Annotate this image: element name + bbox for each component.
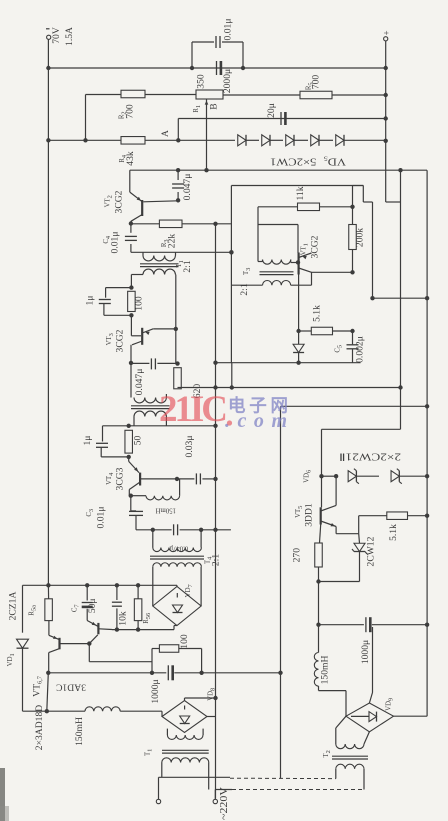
transistor VT6 collector [49, 649, 60, 653]
wire 100R left corner [151, 649, 153, 673]
wire bus-280 vertical [280, 406, 282, 778]
bridge VD8 internal diode [180, 716, 190, 724]
wire T4 sec left leg [152, 567, 154, 588]
wire T1m pri right leg [208, 763, 210, 790]
wire bus-215 long vertical [215, 224, 217, 799]
wire 150mH left stub [131, 495, 146, 497]
svg-text:~220V: ~220V [219, 787, 230, 820]
wire 581 crossbar [319, 581, 360, 583]
node dot s3-215tee [213, 424, 217, 428]
svg-text:1000μ: 1000μ [360, 640, 371, 664]
wire stage3 top wire [103, 425, 216, 427]
svg-text:2CW12: 2CW12 [366, 536, 377, 566]
wire 5k1aux riser [358, 516, 360, 534]
node dot 100-1000u-r [199, 671, 203, 675]
wire emitter2 bus [153, 328, 176, 330]
wire 711 bus a [23, 710, 86, 712]
node dot 427-476 [425, 474, 429, 478]
wire 321 drop to VD6 [321, 429, 323, 476]
node dot 047-top [176, 168, 180, 172]
wire 200k top lead [352, 207, 354, 225]
wire box 200k drop [352, 186, 354, 207]
node dot botedge-215 [213, 361, 217, 365]
node dot 280-672 [278, 671, 282, 675]
transformer T1 bottom winding [143, 269, 175, 274]
wire 0.047 hang [177, 170, 179, 180]
node dot c7-585 [85, 583, 89, 587]
terminal mains right [213, 799, 217, 803]
wire 711 bus b [120, 710, 162, 712]
wire T1m sec right riser [202, 729, 204, 735]
node dot 5k1-cap [350, 329, 354, 333]
transistor VT2 collector [131, 215, 142, 222]
node dot base-047 [176, 198, 180, 202]
wire T2-sec-right [165, 417, 167, 426]
svg-text:0.01μ: 0.01μ [110, 232, 121, 254]
bridge VD8 diamond [162, 701, 207, 733]
svg-text:+: + [382, 30, 392, 35]
wire T2-sec-left [133, 417, 135, 426]
wire bus-400 vertical [400, 170, 402, 429]
terminal minus output [47, 35, 51, 39]
capacitor C4 0.01u [125, 235, 137, 237]
wire jog 385-400 [386, 201, 401, 203]
wire 585 bus [23, 584, 178, 586]
wire base1 drop [88, 644, 90, 662]
wire cap5 top lead [352, 331, 354, 344]
wire bus-231 lower [231, 363, 233, 388]
node dot 10k-585 [115, 583, 119, 587]
svg-text:2CZ1A: 2CZ1A [8, 592, 19, 621]
transformer T1m core [162, 749, 209, 751]
capacitor 0.01u bypass [215, 36, 217, 48]
wire 2cw12 top lead [358, 534, 361, 544]
svg-text:0.03μ: 0.03μ [184, 436, 195, 458]
node dot B-tee [204, 168, 208, 172]
wire stage1 supply py170 [130, 169, 427, 171]
svg-text:100: 100 [134, 296, 145, 311]
wire R5-plusrail [332, 94, 386, 96]
svg-text:5.1k: 5.1k [388, 524, 399, 541]
svg-text:3CG2: 3CG2 [115, 329, 126, 352]
wire z4-z5 [319, 139, 333, 141]
transformer T3 top winding [263, 260, 291, 265]
wire C4 hang [130, 224, 132, 233]
node dot T1r-emitter2 [174, 327, 178, 331]
svg-text:0.01μ: 0.01μ [223, 19, 234, 41]
node dot T1wire-231 [229, 250, 233, 254]
wire 10k top lead [116, 585, 118, 600]
wire T4 sec right leg [200, 567, 202, 606]
capacitor 10k-branch [112, 601, 122, 603]
svg-text:43k: 43k [125, 151, 136, 166]
svg-text:100: 100 [179, 634, 190, 649]
node dot r56-585 [136, 583, 140, 587]
wire T3-bot-right [291, 284, 312, 286]
node dot 427-624 [425, 623, 429, 627]
node dot T4-right-tap [199, 528, 203, 532]
transformer T4 core [150, 555, 204, 557]
wire aux coil riser [318, 625, 320, 653]
wire 5k1aux right [408, 515, 428, 517]
svg-text:1.5A: 1.5A [64, 27, 75, 46]
node dot 298-left [370, 296, 374, 300]
svg-text:700: 700 [125, 104, 136, 119]
transistor VT4 emitter [128, 457, 130, 462]
transformer T1 core [140, 263, 179, 265]
svg-text:11k: 11k [295, 186, 306, 200]
node dot plus-118 [384, 116, 388, 120]
wire mains bottom dashed [232, 789, 364, 791]
node dot loop3 top [127, 424, 131, 428]
capacitor 0.047u stage2 [150, 358, 152, 369]
resistor R 100 stage2 [128, 291, 135, 311]
node dot A-line-178 [176, 138, 180, 142]
wire 0.01u loop top-a [192, 41, 214, 43]
svg-text:150mH: 150mH [74, 717, 85, 746]
node dot 298-right [425, 296, 429, 300]
wire VT7 base lead [99, 628, 112, 631]
wire loop2 bottom [104, 314, 131, 316]
wire VD1 branch bottom [22, 648, 24, 711]
node dot 150mH-tap [175, 477, 179, 481]
wire drop to 711 [47, 673, 49, 711]
node dot 047c-215 [213, 528, 217, 532]
transformer T4 top winding [153, 548, 202, 552]
wire 047c right [180, 529, 231, 531]
transformer T2 bottom winding [134, 411, 166, 416]
diode VD5-2 [262, 135, 270, 146]
wire VT4 base bus [141, 478, 195, 480]
watermark red dot [227, 420, 232, 425]
capacitor C2 2000u [216, 61, 218, 75]
resistor R 11k [298, 203, 320, 211]
wire 620 long bus [178, 387, 401, 389]
node dot collector-R3 [129, 221, 133, 225]
node dot 100-1000u-l [150, 671, 154, 675]
resistor R 100 power [159, 645, 178, 653]
node dot base-5k1 [296, 329, 300, 333]
svg-text:10k: 10k [117, 611, 128, 626]
node dot loop2 top [129, 285, 133, 289]
wire T4 right leg [200, 530, 202, 548]
node dot coll5-tap [334, 474, 338, 478]
svg-text:270: 270 [292, 548, 303, 563]
wire diode bottom lead [298, 353, 300, 363]
wire VD6 wire a [322, 475, 337, 477]
wire T2 left leg [130, 363, 132, 398]
transistor VT5 collector [321, 505, 336, 511]
svg-text:3CG3: 3CG3 [115, 467, 126, 490]
wire T1m pri left leg [161, 763, 163, 778]
terminal plus output [384, 37, 388, 41]
transistor VT2 bar [141, 200, 143, 216]
node dot plus-68 [384, 66, 388, 70]
wire T2 topwind right [165, 394, 167, 398]
wire 1000u bus b [174, 672, 280, 674]
wire z2-z3 [270, 139, 283, 141]
svg-text:200k: 200k [355, 228, 366, 247]
wire stage2 base feed [130, 315, 132, 336]
wire mains top dashed [230, 777, 336, 779]
node dot boxleft-252 [229, 250, 233, 254]
transistor VT5 bar [320, 507, 322, 524]
node dot rail-68 [46, 66, 50, 70]
wire cap5 bottom lead [352, 349, 354, 362]
node dot coll2-wire [129, 361, 133, 365]
wire mains bottom a [215, 789, 232, 791]
scan edge smudge bottom-left [0, 768, 5, 821]
resistor R 620 [174, 368, 182, 389]
wire bridge8 top riser [184, 698, 186, 701]
node dot 10k-629 [115, 627, 119, 631]
wire R5a top lead [47, 585, 49, 599]
wire 0.01u loop left [191, 42, 193, 68]
node dot 427-406 [425, 404, 429, 408]
wire C3 jog [131, 510, 136, 512]
diode VD5-1 [238, 135, 246, 146]
bridge VD7 diamond [153, 587, 201, 626]
resistor R2 700 [121, 90, 145, 98]
wire 10k bottom lead [116, 608, 118, 629]
wire plus rail (portrait px386) [385, 41, 387, 202]
transformer T3 bottom winding [263, 281, 291, 286]
resistor R 5.1k box [311, 327, 332, 335]
wire T1-bot-left [131, 274, 143, 276]
transistor VT6 emitter [49, 635, 59, 639]
wire z5-plusrail [344, 139, 386, 141]
wire bridge8 right link [207, 716, 216, 718]
node dot 620bus-231 [230, 385, 234, 389]
diode VD5-5 [336, 135, 344, 146]
capacitor 1000u power [167, 665, 169, 680]
wire 5.1k right [333, 330, 353, 332]
transformer T2 core [131, 405, 170, 407]
wire VT1 emitter-200k [312, 271, 353, 273]
node dot R3-215tee [213, 222, 217, 226]
node dot base1-node [87, 641, 91, 645]
wire R5a to emitter [48, 621, 50, 636]
wire box left edge [230, 186, 232, 363]
wire 5k1aux left [359, 515, 387, 517]
wire loop3 bottom [101, 456, 129, 458]
bridge VD9 internal diode [369, 712, 377, 722]
wire zener A-line b [145, 139, 235, 141]
diode VD5-4 [311, 135, 319, 146]
wire box top ext [353, 185, 364, 187]
transformer T4 bottom winding [153, 563, 202, 567]
svg-text:1000μ: 1000μ [150, 679, 161, 703]
wire 2cw21 top link [322, 428, 401, 430]
svg-text:5.1k: 5.1k [312, 305, 323, 322]
wire 100R right corner [201, 649, 203, 673]
svg-text:VD5 5×2CW1: VD5 5×2CW1 [270, 154, 346, 166]
wire T5 pri left leg [335, 769, 337, 779]
wire R3 left [131, 223, 160, 225]
wire 003-215 [202, 478, 215, 480]
diode zener 2CW21-2 [391, 471, 399, 482]
node dot rail-140 [46, 138, 50, 142]
wire loop3 left upper [102, 426, 104, 442]
wire box top edge [231, 185, 352, 187]
svg-text:3CG2: 3CG2 [114, 190, 125, 213]
wire C3 drop [130, 496, 132, 511]
wire 047b right [157, 362, 177, 364]
wire 150mH right leg [179, 479, 181, 496]
node dot plus-95 [384, 93, 388, 97]
node dot 11k-200k [350, 205, 354, 209]
wire VD1 branch top [22, 585, 24, 632]
node dot r56-629 [136, 627, 140, 631]
transistor VT6 bar [58, 638, 60, 650]
wire 0.01u loop top-b [222, 41, 243, 43]
svg-text:50μ: 50μ [87, 598, 98, 613]
wire 0.01u loop right [242, 42, 244, 68]
wire loop2 left lower [103, 304, 105, 316]
wire C7 top lead [86, 585, 88, 600]
svg-text:3CG2: 3CG2 [310, 235, 321, 258]
wire 711 corner [161, 711, 163, 716]
wire 11k inner top left corner [257, 207, 259, 262]
inductor 150mH stage3 [146, 496, 180, 500]
wire 100R right lead [179, 648, 202, 650]
node dot 270-bot [316, 579, 320, 583]
capacitor 1u stage3 [96, 442, 108, 444]
node dot plus-141 [384, 139, 388, 143]
node dot 200k-emitter [350, 270, 354, 274]
node dot 427-515 [425, 514, 429, 518]
node dot loop3 bottom [127, 455, 131, 459]
wire T1 topwind right leg [175, 252, 177, 255]
capacitor C7 50u [82, 602, 93, 604]
wire emitter5 drop [335, 527, 337, 534]
wire T3-bot-left [231, 284, 262, 286]
resistor R5a [45, 599, 53, 621]
node dot T4-left-tap [151, 528, 155, 532]
svg-text:350: 350 [196, 74, 207, 89]
capacitor 1u stage2 [99, 299, 111, 301]
capacitor 1000u aux [365, 617, 367, 632]
resistor R4 43k [121, 137, 145, 145]
capacitor 0.047u stage1 [172, 183, 184, 185]
wire minus rail left (portrait px48) [47, 39, 49, 585]
wire 629 to bridge [173, 626, 175, 630]
wire 406 crossbar [281, 405, 428, 407]
wire z1-z2 [246, 139, 259, 141]
transistor VT1 bar [298, 253, 300, 275]
node dot 003-215 [213, 477, 217, 481]
svg-text:70V: 70V [51, 27, 62, 44]
svg-text:0.047μ: 0.047μ [182, 174, 193, 201]
transistor VT5 emitter [321, 521, 336, 527]
wire R2 left [86, 94, 122, 96]
wire R2-pot [145, 94, 196, 96]
wire box-jog-a [353, 185, 364, 187]
wire 629 bus [112, 629, 174, 631]
wire T5 sec left riser [335, 728, 337, 744]
diode zener 2CW12 [354, 543, 365, 551]
wire T1-top-feed [131, 251, 232, 253]
svg-text:3DD1: 3DD1 [304, 503, 315, 527]
diode VD1 2CZ1A [17, 639, 29, 648]
node dot rail-585 [46, 583, 50, 587]
wire bus-427 low [426, 476, 428, 716]
transistor VT4 bar [139, 473, 141, 486]
transformer T1m sec winding [167, 735, 203, 739]
wire 11k left [258, 206, 298, 208]
resistor R 5.1k aux [387, 512, 408, 520]
wire terminal left leg [158, 777, 160, 799]
wire R3 right [182, 223, 231, 225]
wire VT5 base drop [320, 525, 321, 544]
wire terminal right leg [214, 790, 216, 800]
wire stage2 loop top [106, 287, 132, 289]
svg-text:3AD1C: 3AD1C [56, 682, 86, 693]
wire aux1000u wire a [319, 624, 364, 626]
rectifier bridge VD9 diamond [346, 703, 394, 732]
node dot bus400-170 [398, 168, 402, 172]
wire aux1000u wire b [372, 624, 427, 626]
svg-text:21IC: 21IC [159, 389, 228, 430]
transistor VT2 emitter [129, 170, 131, 192]
wire diode top lead [298, 331, 300, 344]
transistor VT3 collector [132, 341, 142, 345]
resistor R 50 stage3 [125, 430, 133, 453]
node dot 215-700 [213, 696, 217, 700]
diode VD5-3 [286, 135, 294, 146]
svg-text:20μ: 20μ [266, 103, 277, 118]
wire 047b left [131, 362, 149, 364]
wire T3 base lead [290, 260, 292, 263]
inductor 150mH aux [314, 653, 318, 687]
wire aux chain drop [318, 582, 320, 625]
wire T1-bot-right [175, 274, 177, 276]
wire 270 bottom lead [318, 567, 320, 582]
wire zener A-line a [48, 139, 121, 141]
capacitor 0.03u [195, 473, 197, 484]
transformer T1m pri winding [162, 758, 209, 763]
transformer T2 top winding [134, 398, 166, 403]
wire bus-372 vertical [362, 186, 364, 203]
node dot VD6-start [319, 474, 323, 478]
wire bus-427 mid [426, 298, 428, 476]
capacitor 20u [280, 112, 282, 125]
transistor VT7 emitter [87, 621, 98, 627]
diode VD stage-box [293, 344, 304, 352]
bridge VD7 internal diode [173, 605, 183, 613]
svg-text:150mH: 150mH [320, 656, 331, 685]
resistor R 200k [349, 225, 357, 250]
wire T3 inner-left jog [258, 261, 263, 263]
terminal mains left [156, 799, 160, 803]
wire C7 bottom lead [86, 609, 88, 621]
wire 20u line [178, 118, 385, 120]
svg-text:50: 50 [133, 436, 144, 446]
wire VT6 base lead [60, 643, 89, 645]
transformer T5 pri winding [336, 764, 364, 769]
svg-text:2×2CW21Ⅱ: 2×2CW21Ⅱ [339, 451, 401, 462]
wire 5.1k left [299, 330, 312, 332]
svg-text:0.047μ: 0.047μ [134, 369, 145, 396]
svg-text:0.01μ: 0.01μ [96, 507, 107, 529]
wire z21 mid [356, 475, 379, 477]
transistor VT3 emitter [142, 329, 153, 333]
resistor R5 700 [300, 91, 332, 99]
transformer T3 core [260, 271, 294, 273]
svg-text:700: 700 [311, 75, 322, 90]
node dot 0.01u-right [241, 66, 245, 70]
wire inner tee 224 [258, 224, 298, 226]
